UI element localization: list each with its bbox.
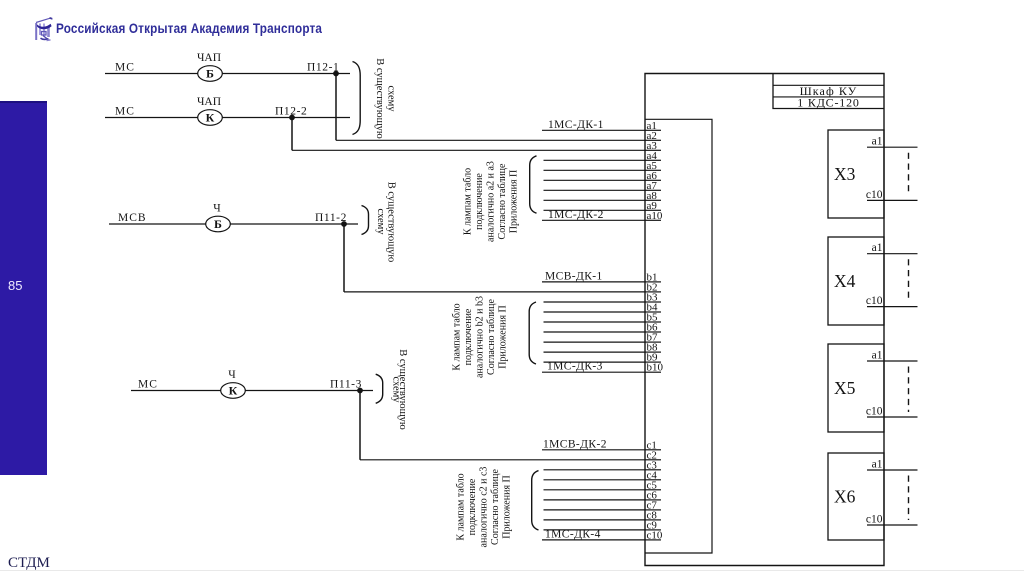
wire row R4 left segment — [131, 390, 221, 392]
bracket to existing circuit (row R3) — [362, 206, 369, 235]
svg-text:c10: c10 — [866, 189, 883, 201]
wire lamp feed to terminal a6 — [544, 179, 646, 181]
note В существующую схему (row R3) — [375, 182, 397, 263]
wire horizontal run П11-2 to b2 — [344, 291, 645, 293]
wire lamp feed to terminal b4 — [544, 311, 646, 313]
bracket lamp group b3-b9 — [529, 302, 536, 364]
wire pin c10 of X3 — [867, 199, 918, 201]
terminal b3 pin tick — [645, 301, 661, 303]
inner terminal field rectangle — [645, 119, 712, 553]
wire net 1МС-ДК-2 to terminal a10 — [542, 219, 645, 221]
svg-text:П11-3: П11-3 — [330, 379, 362, 391]
svg-text:Приложения П: Приложения П — [498, 305, 509, 369]
cabinet Шкаф КУ outline — [645, 74, 884, 566]
note К лампам табло (group a) — [462, 161, 519, 242]
svg-text:МСВ-ДК-1: МСВ-ДК-1 — [545, 270, 603, 282]
svg-text:1МС-ДК-3: 1МС-ДК-3 — [547, 361, 603, 373]
svg-text:Ч: Ч — [213, 203, 221, 215]
svg-text:c10: c10 — [866, 514, 883, 526]
svg-text:К лампам табло: К лампам табло — [462, 168, 473, 235]
header title text — [56, 20, 525, 36]
junction dot at П11-2 — [341, 221, 347, 227]
terminal c7 pin tick — [645, 509, 661, 511]
note К лампам табло (group c) — [455, 467, 512, 548]
terminal a7 pin tick — [645, 189, 661, 191]
wire lamp feed to terminal a4 — [544, 159, 646, 161]
svg-text:подключение: подключение — [463, 308, 474, 365]
wire net 1МС-ДК-1 to terminal a1 — [542, 129, 645, 131]
wire row R1 right segment — [222, 73, 350, 75]
svg-text:X5: X5 — [834, 378, 856, 398]
logo РОАТ emblem — [33, 15, 54, 42]
relay coil Ч-К — [221, 383, 246, 399]
svg-text:X4: X4 — [834, 271, 856, 291]
wire lamp feed to terminal b6 — [544, 331, 646, 333]
wire pin a1 of X6 — [867, 469, 918, 471]
wire pin a1 of X5 — [867, 360, 918, 362]
svg-text:a1: a1 — [872, 242, 883, 254]
svg-text:К лампам табло: К лампам табло — [451, 303, 462, 370]
wire lamp feed to terminal b8 — [544, 351, 646, 353]
wire row R3 right segment — [230, 223, 358, 225]
svg-text:X6: X6 — [834, 487, 856, 507]
wire lamp feed to terminal c7 — [544, 509, 646, 511]
svg-text:c10: c10 — [866, 406, 883, 418]
terminal c3 pin tick — [645, 469, 661, 471]
svg-text:a10: a10 — [647, 210, 663, 222]
wire horizontal run П11-3 to c2 — [360, 459, 645, 461]
wire lamp feed to terminal a9 — [544, 209, 646, 211]
bracket to existing circuit (row R4) — [376, 374, 383, 403]
terminal a5 pin tick — [645, 169, 661, 171]
terminal c2 pin tick — [645, 459, 661, 461]
wire pin a1 of X4 — [867, 253, 918, 255]
svg-text:Приложения П: Приложения П — [509, 170, 520, 234]
svg-text:ЧАП: ЧАП — [197, 52, 221, 64]
terminal a8 pin tick — [645, 199, 661, 201]
note В существующую схему (rows R1-R2) — [374, 58, 397, 139]
terminal a1 pin tick — [645, 129, 661, 131]
wire row R2 right segment — [222, 117, 350, 119]
junction dot at П11-3 — [357, 388, 363, 394]
svg-text:a1: a1 — [872, 136, 883, 148]
terminal c9 pin tick — [645, 529, 661, 531]
wire net 1МС-ДК-4 to terminal c10 — [542, 539, 645, 541]
svg-text:К лампам табло: К лампам табло — [455, 473, 466, 540]
svg-text:МС: МС — [138, 379, 158, 391]
wire horizontal run П12-1 to a2 — [336, 139, 645, 141]
connector X5 — [828, 344, 884, 432]
wire lamp feed to terminal b3 — [544, 301, 646, 303]
terminal a10 pin tick — [645, 219, 661, 221]
terminal a6 pin tick — [645, 179, 661, 181]
terminal b9 pin tick — [645, 361, 661, 363]
wire lamp feed to terminal c9 — [544, 529, 646, 531]
cabinet title box — [773, 74, 884, 109]
wire horizontal run П12-2 to a3 — [292, 149, 645, 151]
relay coil Ч-Б — [206, 216, 231, 232]
wire net 1МС-ДК-3 to terminal b10 — [542, 371, 645, 373]
terminal b8 pin tick — [645, 351, 661, 353]
terminal a9 pin tick — [645, 209, 661, 211]
wire lamp feed to terminal c8 — [544, 519, 646, 521]
svg-text:подключение: подключение — [474, 173, 485, 230]
svg-text:c10: c10 — [647, 529, 663, 541]
connector X4 — [828, 237, 884, 325]
footer label СТДМ — [8, 555, 50, 572]
terminal b7 pin tick — [645, 341, 661, 343]
page number 85 — [8, 278, 22, 293]
wire pin c10 of X5 — [867, 416, 918, 418]
svg-text:Согласно таблице: Согласно таблице — [486, 299, 497, 375]
svg-text:Согласно таблице: Согласно таблице — [497, 163, 508, 239]
svg-text:МСВ: МСВ — [118, 212, 147, 224]
wire row R4 right segment — [245, 390, 373, 392]
wire pin c10 of X4 — [867, 306, 918, 308]
wire lamp feed to terminal a8 — [544, 199, 646, 201]
svg-text:Б: Б — [206, 67, 214, 81]
wire lamp feed to terminal b9 — [544, 361, 646, 363]
terminal b6 pin tick — [645, 331, 661, 333]
footer rule — [0, 570, 1024, 571]
svg-text:1МС-ДК-4: 1МС-ДК-4 — [545, 528, 601, 540]
wire lamp feed to terminal b7 — [544, 341, 646, 343]
wire lamp feed to terminal c4 — [544, 479, 646, 481]
svg-text:К: К — [229, 384, 238, 398]
svg-text:МС: МС — [115, 62, 135, 74]
svg-text:В существующую: В существующую — [397, 349, 408, 430]
svg-text:аналогично a2 и a3: аналогично a2 и a3 — [486, 161, 497, 242]
svg-text:a1: a1 — [872, 350, 883, 362]
connector X3 — [828, 130, 884, 218]
connector X6 — [828, 453, 884, 540]
wire lamp feed to terminal c3 — [544, 469, 646, 471]
wire vertical drop П12-1 to a2 — [335, 74, 337, 141]
svg-text:ЧАП: ЧАП — [197, 96, 221, 108]
svg-text:МС: МС — [115, 106, 135, 118]
bracket to existing circuit (rows R1-R2) — [353, 62, 361, 135]
wire lamp feed to terminal c6 — [544, 499, 646, 501]
svg-text:1МС-ДК-2: 1МС-ДК-2 — [548, 209, 604, 221]
svg-text:Согласно таблице: Согласно таблице — [490, 469, 501, 545]
wire pin a1 of X3 — [867, 146, 918, 148]
junction dot at П12-2 — [289, 115, 295, 121]
terminal b4 pin tick — [645, 311, 661, 313]
wire vertical drop П11-2 to b2 — [343, 224, 345, 292]
svg-text:Приложения П: Приложения П — [502, 475, 513, 539]
wire lamp feed to terminal a5 — [544, 169, 646, 171]
terminal b5 pin tick — [645, 321, 661, 323]
terminal c10 pin tick — [645, 539, 661, 541]
wire vertical drop П11-3 to c2 — [359, 391, 361, 460]
wire net 1МСВ-ДК-2 to terminal c1 — [542, 449, 645, 451]
wire pin c10 of X6 — [867, 524, 918, 526]
svg-text:Ч: Ч — [228, 369, 236, 381]
wire net МСВ-ДК-1 to terminal b1 — [542, 281, 645, 283]
dashed cable X4 — [908, 259, 910, 301]
wire lamp feed to terminal c5 — [544, 489, 646, 491]
terminal a4 pin tick — [645, 159, 661, 161]
dashed cable X3 — [908, 153, 910, 196]
svg-text:Б: Б — [214, 217, 222, 231]
page number sidebar — [0, 101, 47, 475]
terminal b10 pin tick — [645, 371, 661, 373]
svg-text:X3: X3 — [834, 164, 856, 184]
wire lamp feed to terminal b5 — [544, 321, 646, 323]
svg-text:a1: a1 — [872, 459, 883, 471]
terminal c1 pin tick — [645, 449, 661, 451]
svg-text:аналогично b2 и b3: аналогично b2 и b3 — [475, 296, 486, 378]
terminal c6 pin tick — [645, 499, 661, 501]
svg-text:В существующую: В существующую — [386, 182, 397, 263]
svg-text:1 КДС-120: 1 КДС-120 — [797, 96, 859, 110]
svg-text:подключение: подключение — [467, 478, 478, 535]
terminal a2 pin tick — [645, 139, 661, 141]
wire lamp feed to terminal a7 — [544, 189, 646, 191]
terminal c8 pin tick — [645, 519, 661, 521]
note В существующую схему (row R4) — [390, 349, 408, 430]
svg-text:b10: b10 — [647, 362, 664, 374]
svg-text:аналогично c2 и c3: аналогично c2 и c3 — [479, 467, 490, 548]
svg-text:схему: схему — [375, 208, 386, 235]
terminal b1 pin tick — [645, 281, 661, 283]
terminal a3 pin tick — [645, 149, 661, 151]
wire row R2 left segment — [105, 117, 198, 119]
wire row R3 left segment — [109, 223, 206, 225]
svg-text:В существующую: В существующую — [374, 58, 385, 139]
terminal c5 pin tick — [645, 489, 661, 491]
svg-text:К: К — [206, 111, 215, 125]
bracket lamp group c3-c9 — [532, 471, 539, 530]
relay coil ЧАП-Б — [198, 66, 223, 82]
bracket lamp group a4-a9 — [530, 156, 537, 213]
terminal c4 pin tick — [645, 479, 661, 481]
note К лампам табло (group b) — [451, 296, 508, 378]
relay coil ЧАП-К — [198, 110, 223, 126]
dashed cable X6 — [908, 476, 910, 521]
junction dot at П12-1 — [333, 71, 339, 77]
svg-text:1МСВ-ДК-2: 1МСВ-ДК-2 — [543, 438, 607, 450]
svg-text:схему: схему — [386, 85, 397, 112]
wire vertical drop П12-2 to a3 — [291, 118, 293, 151]
svg-text:c10: c10 — [866, 295, 883, 307]
wire row R1 left segment — [105, 73, 198, 75]
dashed cable X5 — [908, 367, 910, 413]
terminal b2 pin tick — [645, 291, 661, 293]
svg-text:1МС-ДК-1: 1МС-ДК-1 — [548, 119, 604, 131]
